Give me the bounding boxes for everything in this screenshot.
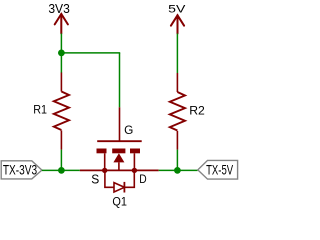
- wire R1 to bottom junction: [60, 150, 62, 171]
- source pin S: [80, 169, 105, 171]
- net flag TX-3V3: [1, 161, 42, 179]
- gate pin: [119, 107, 121, 141]
- drain pin D: [134, 169, 158, 171]
- power symbol 3V3: [55, 14, 68, 34]
- junction dot drain: [132, 168, 137, 173]
- wire 3V3 down to junction: [60, 34, 62, 53]
- junction node TX-3V3/R1/S: [58, 167, 65, 174]
- substrate arrow: [113, 153, 124, 162]
- svg-text:TX-3V3: TX-3V3: [3, 163, 37, 178]
- wire 5V to R2: [176, 34, 178, 74]
- wire junction to TX-5V: [177, 169, 197, 171]
- body diode: [114, 182, 124, 193]
- svg-text:D: D: [139, 174, 146, 186]
- wire junction to source pin: [61, 169, 79, 171]
- gate plate: [97, 140, 142, 142]
- drain bar stem: [133, 153, 135, 170]
- svg-text:R2: R2: [189, 104, 205, 118]
- svg-text:R1: R1: [33, 103, 47, 117]
- wire junction to R1: [60, 53, 62, 73]
- junction node 3V3/R1/gate: [58, 50, 65, 57]
- resistor R1: [54, 73, 69, 150]
- wire R2 to right junction: [176, 150, 178, 171]
- resistor R2: [170, 73, 185, 150]
- power symbol 5V: [171, 15, 184, 33]
- wire drain pin to right junction: [159, 169, 178, 171]
- junction dot source: [102, 168, 107, 173]
- body diode loop: [105, 170, 134, 187]
- wire gate branch vertical: [119, 53, 121, 107]
- channel bar body: [112, 149, 125, 154]
- svg-text:TX-5V: TX-5V: [206, 162, 233, 177]
- svg-text:3V3: 3V3: [48, 1, 70, 16]
- channel bar drain: [130, 149, 140, 154]
- svg-text:Q1: Q1: [112, 194, 127, 208]
- svg-text:G: G: [124, 123, 133, 137]
- transistor Q1: [80, 107, 159, 192]
- substrate stem: [118, 162, 120, 170]
- internal wire S to D: [105, 169, 135, 171]
- svg-text:S: S: [91, 173, 99, 187]
- wire TX-3V3 to junction: [42, 169, 62, 171]
- source bar stem: [104, 153, 106, 170]
- wire gate branch horizontal: [61, 52, 120, 54]
- channel bar source: [97, 149, 107, 154]
- junction node R2/D/TX-5V: [174, 167, 181, 174]
- net flag TX-5V: [198, 160, 238, 179]
